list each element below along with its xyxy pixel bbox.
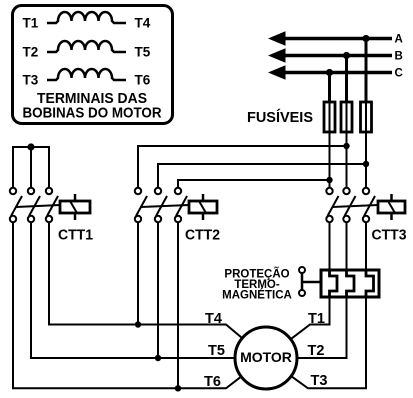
arrowhead line B xyxy=(268,48,286,62)
wire fuse F1 to CTT2 pole 3 xyxy=(178,180,330,188)
wire fuse F3 to CTT2 pole 2 xyxy=(158,164,366,188)
inductor coil T1-T4 xyxy=(47,12,126,23)
node fuse F3 feed xyxy=(363,161,369,167)
contactor CTT2 pole 1 xyxy=(135,188,147,222)
wire overload 2 to motor T2 xyxy=(297,297,347,358)
trip contact lower terminal xyxy=(299,290,305,296)
linkage CTT2 xyxy=(141,205,189,207)
svg-text:T2: T2 xyxy=(23,45,39,60)
svg-text:T4: T4 xyxy=(135,16,151,31)
arrowhead line C xyxy=(268,65,286,79)
power line C xyxy=(280,71,392,75)
node fuse F1 feed xyxy=(326,177,332,183)
fuse F3 xyxy=(361,102,372,132)
node star bus xyxy=(27,143,34,150)
power line A xyxy=(280,37,392,41)
svg-text:A: A xyxy=(395,34,403,46)
coil box CTT3 xyxy=(378,194,405,220)
heater element 3 xyxy=(366,270,374,297)
svg-text:T3: T3 xyxy=(311,373,328,389)
node fuse F2 feed xyxy=(343,143,349,149)
contactor CTT1 pole 3 xyxy=(46,188,58,222)
fuse F2 xyxy=(341,102,352,132)
svg-text:FUSÍVEIS: FUSÍVEIS xyxy=(247,109,313,126)
node CTT2-T6 xyxy=(175,385,181,391)
wire fuse F3 down to CTT3 pole 3 xyxy=(365,102,367,188)
heater element 2 xyxy=(347,270,355,297)
node C to fuse F1 xyxy=(326,69,333,76)
svg-text:CTT3: CTT3 xyxy=(372,228,407,244)
contactor CTT2 pole 2 xyxy=(155,188,167,222)
trip contact link to block xyxy=(302,281,321,284)
heater element 1 xyxy=(330,270,338,297)
inductor coil T3-T6 xyxy=(47,69,126,80)
node CTT2-T5 xyxy=(155,355,161,361)
wire star bus middle xyxy=(30,147,32,188)
node B to fuse F2 xyxy=(343,52,350,59)
coil box CTT2 xyxy=(189,194,217,220)
contactor CTT1 pole 1 xyxy=(10,188,22,222)
wire C to fuse F1 xyxy=(328,73,331,104)
node CTT2-T4 xyxy=(135,321,141,327)
wire CTT2 pole 3 to T6 line xyxy=(177,222,179,388)
wire CTT1 pole 1 to T6 line xyxy=(13,222,241,388)
linkage CTT3 xyxy=(333,205,379,207)
motor M xyxy=(235,327,297,389)
svg-text:T5: T5 xyxy=(208,343,225,359)
arrowhead line A xyxy=(268,31,286,45)
wire B to fuse F2 xyxy=(345,56,348,104)
overload relay block xyxy=(321,270,379,297)
svg-text:T4: T4 xyxy=(205,311,222,327)
trip contact blade xyxy=(301,274,304,291)
wire CTT2 pole 1 to T4 line xyxy=(137,222,139,325)
svg-text:T6: T6 xyxy=(135,73,151,88)
svg-text:CTT2: CTT2 xyxy=(185,228,220,244)
power line B xyxy=(280,54,392,58)
star bus of CTT1 xyxy=(13,147,49,188)
linkage CTT1 xyxy=(16,205,60,207)
contactor CTT2 pole 3 xyxy=(175,188,187,222)
svg-text:T5: T5 xyxy=(135,45,151,60)
fuse F1 xyxy=(324,102,335,132)
wire overload 3 to motor T3 xyxy=(291,297,366,388)
coil box CTT1 xyxy=(60,194,90,220)
trip contact upper terminal xyxy=(299,267,305,273)
svg-text:T6: T6 xyxy=(204,374,221,390)
svg-text:MOTOR: MOTOR xyxy=(240,349,292,365)
wire fuse F1 down to CTT3 pole 1 xyxy=(329,102,331,188)
svg-text:T2: T2 xyxy=(308,343,325,359)
wire A to fuse F3 xyxy=(365,39,368,104)
contactor CTT3 pole 1 xyxy=(326,188,338,222)
svg-text:T1: T1 xyxy=(308,311,325,327)
svg-text:CTT1: CTT1 xyxy=(58,228,93,244)
svg-text:T3: T3 xyxy=(23,73,39,88)
wire fuse F2 down to CTT3 pole 2 xyxy=(346,102,348,188)
legend box TERMINAIS DAS BOBINAS DO MOTOR xyxy=(13,6,173,124)
contactor CTT3 pole 2 xyxy=(343,188,355,222)
wire CTT3 pole 1 to overload xyxy=(329,222,331,270)
node A to fuse F3 xyxy=(362,35,369,42)
svg-text:C: C xyxy=(395,68,403,80)
contactor CTT1 pole 2 xyxy=(28,188,40,222)
wire CTT1 pole 2 to T5 line xyxy=(31,222,235,358)
wire fuse F2 to CTT2 pole 1 xyxy=(138,146,347,188)
svg-text:B: B xyxy=(395,51,403,63)
wire CTT3 pole 2 to overload xyxy=(346,222,348,270)
wire CTT2 pole 2 to T5 line xyxy=(157,222,159,358)
svg-text:BOBINAS DO MOTOR: BOBINAS DO MOTOR xyxy=(23,105,162,122)
svg-text:MAGNÉTICA: MAGNÉTICA xyxy=(222,289,292,302)
inductor coil T2-T5 xyxy=(47,41,126,52)
contactor CTT3 pole 3 xyxy=(363,188,375,222)
wire overload 1 to motor T1 xyxy=(291,297,330,339)
wire CTT3 pole 3 to overload xyxy=(365,222,367,270)
wire CTT1 pole 3 to T4 line xyxy=(49,222,242,338)
svg-text:T1: T1 xyxy=(23,16,39,31)
